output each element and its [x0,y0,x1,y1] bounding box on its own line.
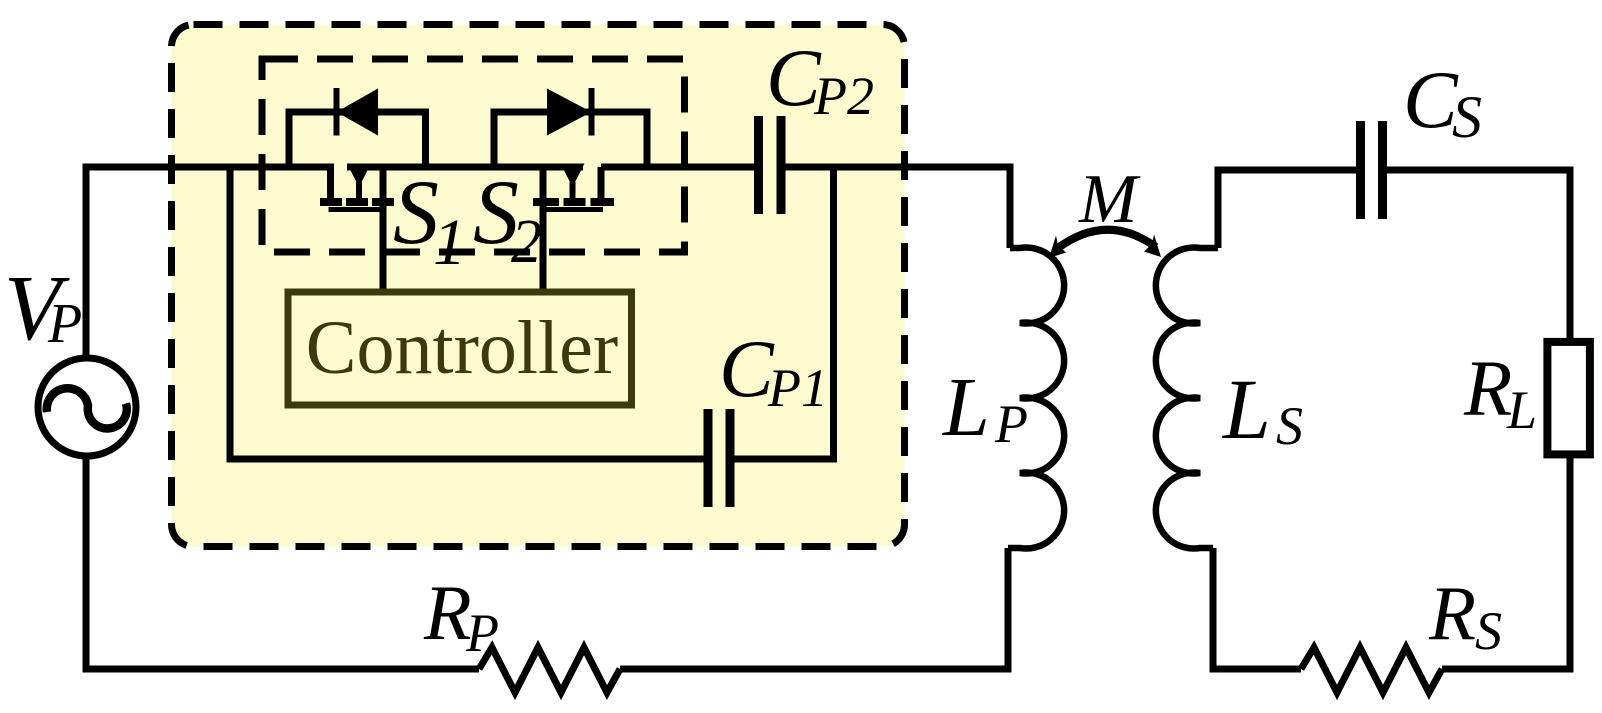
label CS [1403,54,1482,150]
switch unit enclosure (inner dashed box) [262,59,685,252]
wire: RL bottom to RS [1442,458,1570,669]
resistor RL (load, rectangle) [1547,342,1590,455]
wire: top bus from S2 to CP2 (segment 3) [601,164,754,171]
wire: CP1 right up to top bus [735,167,834,459]
svg-text:P: P [465,603,499,663]
switch S2 MOSFET [533,164,614,210]
svg-text:1: 1 [433,206,466,279]
svg-text:R: R [1463,346,1512,433]
svg-text:L: L [1221,361,1271,457]
wire: VP top to S1 drain corner [86,167,331,360]
svg-text:C: C [1403,54,1459,145]
label LS [1221,361,1303,457]
wire: VP bottom to RP [86,454,479,669]
svg-text:L: L [1506,380,1537,440]
voltage source VP [38,358,136,456]
svg-text:P1: P1 [767,358,828,418]
wire: top bus over switches (segment 2) [347,164,583,171]
label RL [1463,346,1537,440]
wire: CP2 right to LP top [785,167,1010,248]
label S1 [393,161,466,279]
label CP2 [766,32,874,126]
svg-text:P: P [994,394,1028,454]
wire: CS right to RL top [1387,170,1570,338]
wire: RP to LP bottom [620,548,1008,669]
switch S1 MOSFET [320,164,394,210]
wire: RS left to LS bottom [1213,548,1301,669]
svg-text:R: R [423,569,472,656]
svg-text:L: L [942,361,990,454]
svg-text:S: S [1452,84,1482,150]
label RS [1428,570,1502,661]
controller box [288,292,632,405]
diode D1 (antiparallel on S1) [289,88,426,170]
capacitor CP1 [708,409,730,507]
label CP1 [719,323,828,418]
svg-text:S: S [1276,396,1303,456]
svg-text:P2: P2 [813,66,874,126]
svg-text:P: P [47,293,82,355]
S2 gate lead to controller [540,167,547,289]
label RP [423,569,499,663]
label LP [942,361,1028,454]
resistor RP [479,648,620,693]
svg-text:M: M [1078,161,1141,238]
capacitor CS [1361,121,1383,219]
svg-text:2: 2 [511,208,542,276]
svg-text:R: R [1428,570,1476,656]
wire: LS top to CS [1218,170,1356,248]
svg-text:Controller: Controller [306,306,618,390]
svg-text:S: S [1475,601,1502,661]
capacitor CP2 [759,116,782,214]
inductor LP (primary coil) [1008,248,1064,549]
primary compensation unit enclosure (outer yellow dashed box) [172,25,905,547]
resistor RS [1301,648,1442,693]
svg-text:C: C [719,323,775,414]
label VP [4,257,82,360]
S1 gate lead to controller [380,167,387,289]
wire: CP1 branch left (down from top bus) [230,167,704,459]
diode D2 (antiparallel on S2) [494,88,647,170]
inductor LS (secondary coil) [1156,248,1218,549]
label S2 [473,161,542,276]
mutual coupling arrow M [1049,230,1161,258]
